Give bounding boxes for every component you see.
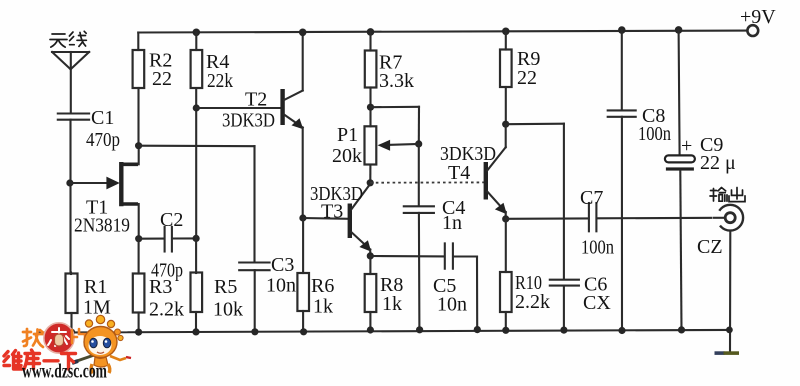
potentiometer P1 20k <box>365 126 423 182</box>
svg-text:R5: R5 <box>214 276 237 298</box>
wire: top +9V supply rail <box>138 31 747 33</box>
node B: drain junction <box>135 142 142 149</box>
svg-text:10n: 10n <box>266 275 296 297</box>
svg-text:2.2k: 2.2k <box>515 291 550 313</box>
svg-text:470p: 470p <box>86 129 120 151</box>
label R9 22 <box>517 48 540 89</box>
svg-text:+: + <box>681 135 692 157</box>
label 输出 (drawn strokes) <box>710 188 745 202</box>
svg-text:R3: R3 <box>149 276 172 298</box>
svg-text:22 μ: 22 μ <box>700 152 736 174</box>
transistor T2 3DK3D <box>283 29 307 219</box>
node D: R4 bottom / T2 base junction <box>193 104 200 111</box>
svg-text:1M: 1M <box>83 297 111 319</box>
svg-text:CZ: CZ <box>697 236 723 258</box>
node E: T2 emitter / T3 base junction <box>299 214 348 221</box>
svg-text:+9V: +9V <box>740 6 776 28</box>
label T4 3DK3D <box>440 143 496 184</box>
label + C9 22u <box>681 134 736 174</box>
transistor T4 3DK3D <box>486 124 510 222</box>
svg-text:3.3k: 3.3k <box>379 70 414 92</box>
svg-text:R6: R6 <box>311 275 334 297</box>
resistor R2 <box>133 33 145 146</box>
wire: C6 column <box>563 124 565 280</box>
svg-text:T2: T2 <box>245 89 267 111</box>
watermark seal 芯 <box>44 323 74 353</box>
label R2 22 <box>149 50 172 91</box>
capacitor C6 <box>550 280 579 334</box>
svg-text:C3: C3 <box>271 254 294 276</box>
ground <box>715 351 740 355</box>
capacitor C5 <box>445 243 481 333</box>
svg-text:1n: 1n <box>442 212 462 234</box>
resistor R1 <box>66 273 78 336</box>
svg-text:www.dzsc.com: www.dzsc.com <box>22 361 107 383</box>
transistor T3 3DK3D <box>350 179 374 259</box>
svg-text:22: 22 <box>152 68 172 90</box>
label T2 3DK3D <box>222 89 275 132</box>
svg-text:20k: 20k <box>332 145 362 167</box>
resistor R4 <box>191 29 203 239</box>
resistor R7 <box>365 28 377 126</box>
svg-text:10k: 10k <box>213 299 243 321</box>
watermark char 片 <box>72 329 86 346</box>
label C1 470p <box>86 107 120 151</box>
node C: source junction <box>135 235 142 242</box>
svg-text:2N3819: 2N3819 <box>74 215 130 237</box>
capacitor C9 (electrolytic) <box>665 26 695 333</box>
svg-text:C1: C1 <box>91 107 114 129</box>
svg-text:2.2k: 2.2k <box>149 299 184 321</box>
svg-text:R1: R1 <box>84 276 107 298</box>
capacitor C7 <box>589 203 597 231</box>
label R10 2.2k <box>515 272 550 313</box>
svg-text:3DK3D: 3DK3D <box>222 110 275 132</box>
resistor R5 <box>191 238 203 335</box>
label C4 1n <box>442 197 465 234</box>
svg-text:T3: T3 <box>321 201 343 223</box>
node G: T4 collector junction <box>502 121 564 128</box>
svg-text:T4: T4 <box>448 162 470 184</box>
label CZ <box>697 236 723 258</box>
transistor T1 2N3819 (JFET) <box>106 146 138 239</box>
svg-text:10n: 10n <box>437 294 467 316</box>
svg-text:C7: C7 <box>580 187 603 209</box>
watermark char 找 <box>23 329 43 347</box>
label R3 2.2k <box>149 276 184 321</box>
label C6 CX <box>583 274 611 315</box>
wire: T3 emitter row <box>370 255 444 257</box>
watermark text 维库一下 <box>4 350 76 369</box>
label R6 1k <box>311 275 334 318</box>
watermark text www.dzsc.com <box>22 361 107 383</box>
resistor R8 <box>365 256 377 334</box>
svg-text:100n: 100n <box>638 123 671 145</box>
resistor R6 <box>297 218 309 335</box>
label T1 2N3819 <box>74 197 130 237</box>
capacitor C1 <box>58 114 89 273</box>
wire: dashed collector-base link T3->T4 <box>370 181 484 183</box>
resistor R3 <box>133 239 145 336</box>
label T3 3DK3D <box>310 183 363 223</box>
capacitor C2 <box>139 227 200 252</box>
wire: C3 column <box>253 146 255 262</box>
capacitor C3 <box>239 263 269 336</box>
svg-text:CX: CX <box>583 292 611 314</box>
label 天线 (drawn strokes) <box>50 31 86 47</box>
resistor R9 <box>500 28 512 125</box>
label R7 3.3k <box>379 52 414 93</box>
capacitor C8 <box>608 26 636 334</box>
capacitor C4 <box>404 206 434 333</box>
label C2 470p <box>151 209 183 282</box>
label C8 100n <box>638 105 671 145</box>
svg-text:22k: 22k <box>207 70 233 92</box>
svg-text:P1: P1 <box>337 124 358 146</box>
wire: C4 column (wiper to ground) <box>418 144 420 206</box>
label R8 1k <box>380 274 403 315</box>
label R4 22k <box>206 51 233 92</box>
label C3 10n <box>266 254 296 297</box>
wire: T2 base <box>196 107 281 109</box>
wire: bottom ground rail <box>38 330 729 333</box>
terminal +9V <box>740 6 776 36</box>
node F: R7/P1 junction <box>367 104 419 144</box>
label R1 1M <box>83 276 111 319</box>
wire: T4 emitter output row <box>506 218 718 219</box>
watermark mascot <box>72 315 131 373</box>
node A: gate junction <box>66 179 112 186</box>
svg-text:1k: 1k <box>382 293 402 315</box>
resistor R10 <box>500 219 512 334</box>
svg-text:100n: 100n <box>581 237 614 259</box>
label C5 10n <box>433 275 467 316</box>
antenna 天线 <box>52 52 89 113</box>
svg-text:1k: 1k <box>313 296 333 318</box>
label P1 20k <box>332 124 362 167</box>
label C7 100n <box>580 187 614 259</box>
svg-text:C2: C2 <box>160 209 183 231</box>
connector CZ (output jack) <box>713 205 744 352</box>
wire: drain row to C3 column <box>139 145 255 148</box>
label R5 10k <box>213 276 243 321</box>
svg-text:22: 22 <box>517 67 537 89</box>
